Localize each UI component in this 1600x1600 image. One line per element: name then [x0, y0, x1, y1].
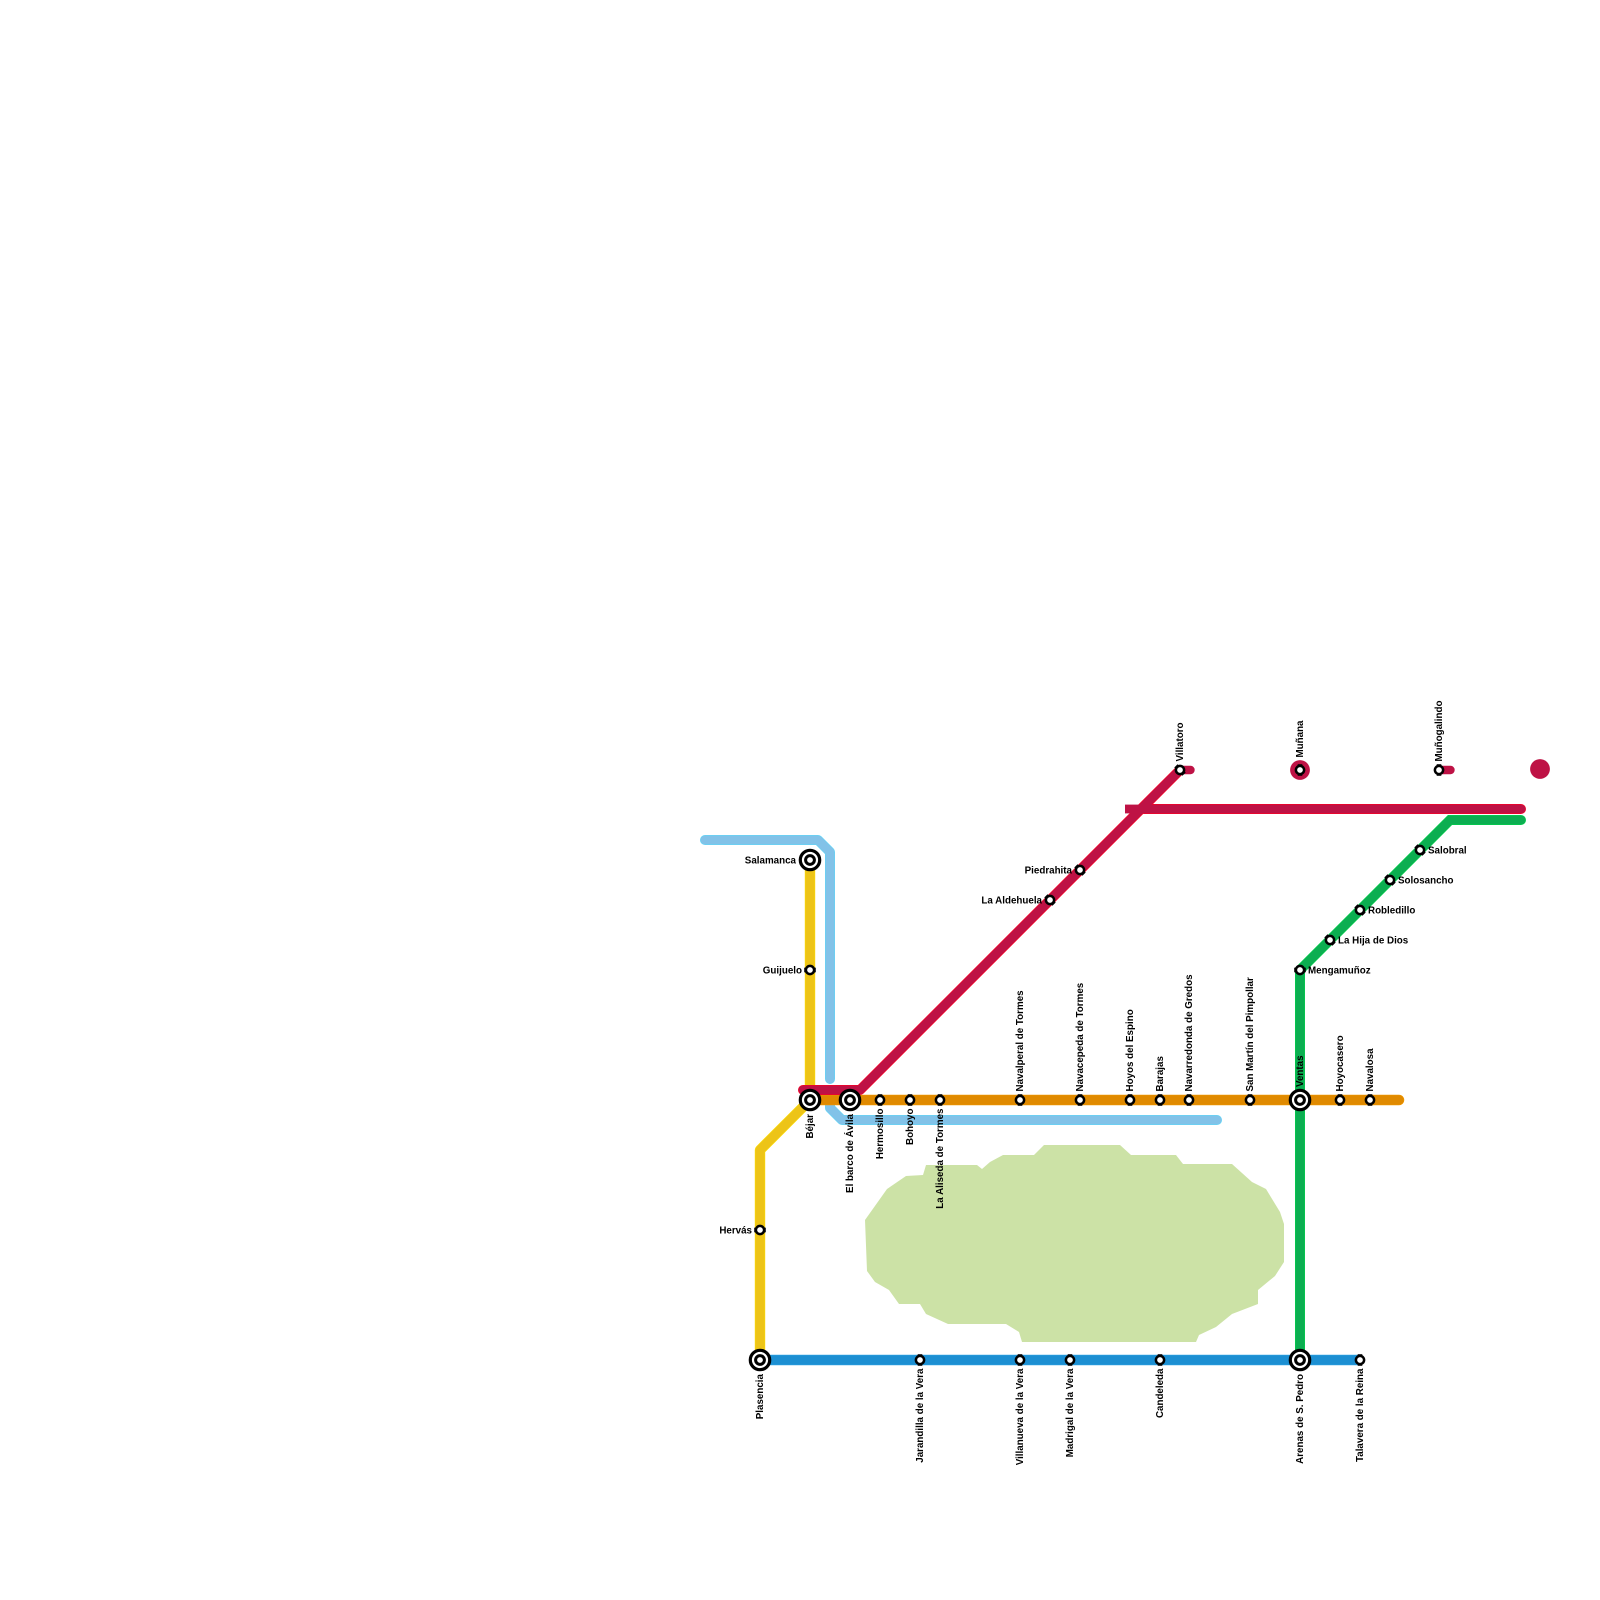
svg-text:Solosancho: Solosancho	[1398, 876, 1454, 887]
svg-text:Jarandilla de la Vera: Jarandilla de la Vera	[915, 1368, 926, 1463]
svg-text:La Hija de Dios: La Hija de Dios	[1338, 936, 1409, 947]
svg-text:Guijuelo: Guijuelo	[763, 966, 802, 977]
svg-text:La Aliseda de Tormes: La Aliseda de Tormes	[935, 1108, 946, 1209]
svg-text:Hoyocasero: Hoyocasero	[1335, 1035, 1346, 1091]
svg-text:Hervás: Hervás	[719, 1226, 752, 1237]
svg-text:Ventas: Ventas	[1295, 1055, 1306, 1087]
svg-text:Hoyos del Espino: Hoyos del Espino	[1125, 1009, 1136, 1091]
svg-text:Béjar: Béjar	[805, 1114, 816, 1139]
svg-text:Muñana: Muñana	[1295, 720, 1306, 758]
svg-text:Villatoro: Villatoro	[1175, 722, 1186, 761]
svg-text:El barco de Ávila: El barco de Ávila	[844, 1113, 856, 1193]
svg-text:Hermosillo: Hermosillo	[875, 1108, 886, 1159]
svg-text:Arenas de S. Pedro: Arenas de S. Pedro	[1295, 1374, 1306, 1464]
svg-text:Salobral: Salobral	[1428, 846, 1467, 857]
svg-text:Robledillo: Robledillo	[1368, 906, 1415, 917]
svg-text:Navalperal de Tormes: Navalperal de Tormes	[1015, 990, 1026, 1092]
svg-text:Navacepeda de Tormes: Navacepeda de Tormes	[1075, 982, 1086, 1091]
svg-text:Navalosa: Navalosa	[1365, 1048, 1376, 1092]
svg-text:Plasencia: Plasencia	[755, 1373, 766, 1419]
svg-text:La Aldehuela: La Aldehuela	[981, 896, 1042, 907]
svg-text:Madrigal de la Vera: Madrigal de la Vera	[1065, 1368, 1076, 1457]
svg-text:Candeleda: Candeleda	[1155, 1368, 1166, 1418]
svg-text:Piedrahita: Piedrahita	[1025, 866, 1073, 877]
svg-text:Salamanca: Salamanca	[745, 856, 797, 867]
svg-text:Muñogalindo: Muñogalindo	[1434, 701, 1445, 762]
svg-text:Navarredonda de Gredos: Navarredonda de Gredos	[1184, 974, 1195, 1092]
svg-text:Barajas: Barajas	[1155, 1056, 1166, 1092]
svg-text:San Martín del Pimpollar: San Martín del Pimpollar	[1245, 977, 1256, 1092]
svg-text:Talavera de la Reina: Talavera de la Reina	[1355, 1368, 1366, 1462]
svg-text:Bohoyo: Bohoyo	[905, 1108, 916, 1144]
svg-text:Mengamuñoz: Mengamuñoz	[1308, 966, 1371, 977]
svg-text:Villanueva de la Vera: Villanueva de la Vera	[1015, 1368, 1026, 1465]
